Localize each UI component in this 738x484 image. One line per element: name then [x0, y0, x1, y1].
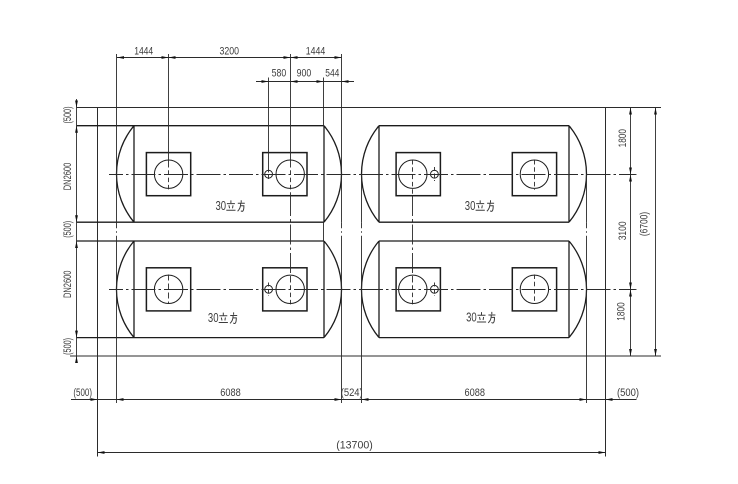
svg-text:900: 900: [297, 67, 312, 79]
svg-text:6088: 6088: [220, 387, 241, 399]
svg-text:DN2600: DN2600: [62, 271, 74, 299]
dimension line right (6700): [655, 108, 657, 357]
manhole squares row 1: [146, 153, 556, 196]
extension line tank T2 right tangent: [586, 175, 588, 404]
arrows bottom dims: [91, 398, 613, 454]
svg-text:(500): (500): [62, 107, 74, 124]
svg-text:30: 30: [466, 310, 477, 325]
plot boundary rectangle: [70, 108, 661, 457]
extension line head seam: [323, 78, 325, 242]
manhole squares row 2: [146, 268, 556, 311]
label 30立方 tank T4: [466, 310, 495, 325]
extension line tank left tangent: [116, 54, 118, 403]
vertical centerline manhole B2 (tank T2 right): [534, 160, 536, 304]
svg-text:DN2600: DN2600: [62, 163, 74, 191]
svg-text:6088: 6088: [465, 387, 486, 399]
dimension line bottom (13700): [98, 452, 606, 454]
dimension line right column 1800/3100/1800: [630, 108, 632, 357]
svg-text:3200: 3200: [220, 45, 240, 57]
horizontal centerline row 1: [109, 174, 637, 176]
svg-text:(6700): (6700): [639, 212, 651, 236]
svg-text:1444: 1444: [306, 45, 326, 57]
svg-text:30: 30: [216, 198, 227, 213]
label 30立方 tank T3: [208, 310, 237, 325]
svg-text:(500): (500): [62, 338, 74, 355]
svg-text:(500): (500): [617, 387, 639, 399]
tank T2 outline (top-right): [362, 126, 587, 223]
arrows top dim row 2: [262, 80, 349, 83]
dimension line left column: [76, 99, 78, 363]
arrows left dim: [75, 101, 78, 364]
svg-text:(524): (524): [341, 387, 363, 399]
svg-text:(500): (500): [73, 387, 92, 399]
label 30立方 tank T2: [465, 198, 494, 213]
dimension line top row 2 (580 900 544): [256, 81, 354, 83]
dimension line top row 1 (1444 3200 1444): [117, 57, 342, 59]
vertical centerline manhole B1 (3200 dim line): [290, 54, 292, 306]
vertical centerline manhole A1: [168, 54, 170, 304]
vertical centerline small nozzle left tanks: [268, 78, 270, 297]
manhole circles row 1: [154, 160, 548, 188]
tank T4 outline (bottom-right): [361, 241, 586, 338]
arrows top dim row 1: [117, 56, 342, 59]
svg-text:1800: 1800: [617, 129, 629, 147]
svg-text:(13700): (13700): [336, 439, 373, 451]
vertical centerline manhole A2 (tank T2 left): [412, 160, 414, 306]
svg-text:1444: 1444: [134, 45, 153, 57]
svg-text:580: 580: [272, 67, 287, 79]
manhole circles row 2: [154, 275, 548, 303]
svg-text:30: 30: [465, 198, 476, 213]
svg-text:1800: 1800: [615, 302, 627, 320]
label 30立方 tank T1: [216, 198, 245, 213]
svg-text:3100: 3100: [617, 221, 629, 240]
extension line tank T2 left tangent: [361, 175, 363, 404]
vertical centerline small nozzle right tanks: [434, 167, 436, 296]
arrows right dims: [629, 108, 657, 357]
horizontal centerline row 2: [109, 289, 637, 291]
dimension line bottom (500 6088 524 6088 500): [71, 399, 637, 401]
extension line tank T1 right tangent: [341, 54, 343, 403]
tank T3 outline (bottom-left): [77, 241, 342, 338]
svg-text:544: 544: [325, 67, 339, 79]
tank T1 outline (top-left): [77, 126, 342, 223]
svg-text:(500): (500): [62, 221, 74, 238]
svg-text:30: 30: [208, 310, 219, 325]
